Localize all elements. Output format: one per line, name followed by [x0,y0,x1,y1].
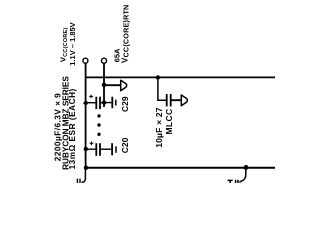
net arrow RTN [121,80,127,90]
component sliver B bar2 [237,180,239,183]
node junction dot RTN arrow branch [102,83,107,88]
capacitor MLCC plate2 [170,94,172,106]
wire rail1 VCC vertical [85,63,87,167]
ground symbol C29 tall bar [111,97,113,109]
wire C29 to ground [104,102,111,104]
terminal circle VCC(CORE) [83,58,88,63]
wire to RTN arrow [104,84,120,86]
node junction dot bus right [244,165,249,170]
capacitor C20 plus sign [90,142,94,146]
ellipsis dot 3 [97,133,100,136]
wire sliver A below bus [82,168,86,183]
capacitor C20 plate1 [95,143,97,156]
ellipsis dot 1 [97,114,100,117]
callout arrowhead on rail1 [83,101,87,105]
svg-text:C29: C29 [120,96,130,112]
capacitor MLCC plate1 [166,94,168,106]
node junction dot C29 on rail2 [102,100,106,104]
capacitor C29 lead left [85,102,95,104]
terminal circle VCC(CORE)RTN [102,58,107,63]
net arrow MLCC [181,95,187,106]
svg-text:10µF × 27: 10µF × 27 [154,107,164,148]
wire bottom bus [86,167,275,169]
capacitor C29 lead right [101,102,104,104]
wire rail2 RTN vertical [103,63,105,107]
wire VCC horizontal feed [86,76,275,78]
svg-text:VCC(CORE)RTN: VCC(CORE)RTN [120,5,130,63]
ground symbol C29 short bar [115,100,117,106]
capacitor C29 plate1 [95,97,97,109]
ground symbol C20 tall bar [111,143,113,155]
wire MLCC branch [158,78,166,101]
wire MLCC to arrow [172,99,181,101]
component sliver B bar1 [235,180,237,183]
node junction dot C29 on rail1 [84,101,88,105]
node junction dot C20 on rail1 [84,147,88,151]
component sliver A bar1 [76,179,78,183]
ellipsis dot 2 [97,123,100,126]
capacitor C29 plus sign [89,95,93,99]
ground symbol C20 short bar [115,146,117,153]
svg-text:13mΩ ESR (EACH): 13mΩ ESR (EACH) [68,88,77,169]
wire sliver B below bus [239,167,245,182]
capacitor C29 plate2 [99,97,101,109]
wire C20 to ground [101,148,111,150]
capacitor C20 plate2 [99,143,101,156]
node junction dot MLCC branch [156,75,160,79]
svg-text:MLCC: MLCC [164,109,174,135]
component sliver A bar2 [79,179,81,183]
component sliver B T bar [228,180,233,183]
capacitor C20 lead left [85,148,95,150]
svg-text:C20: C20 [120,137,130,153]
node junction dot rail1 bus corner [84,166,88,170]
svg-text:1.1V – 1.85V: 1.1V – 1.85V [68,22,77,65]
